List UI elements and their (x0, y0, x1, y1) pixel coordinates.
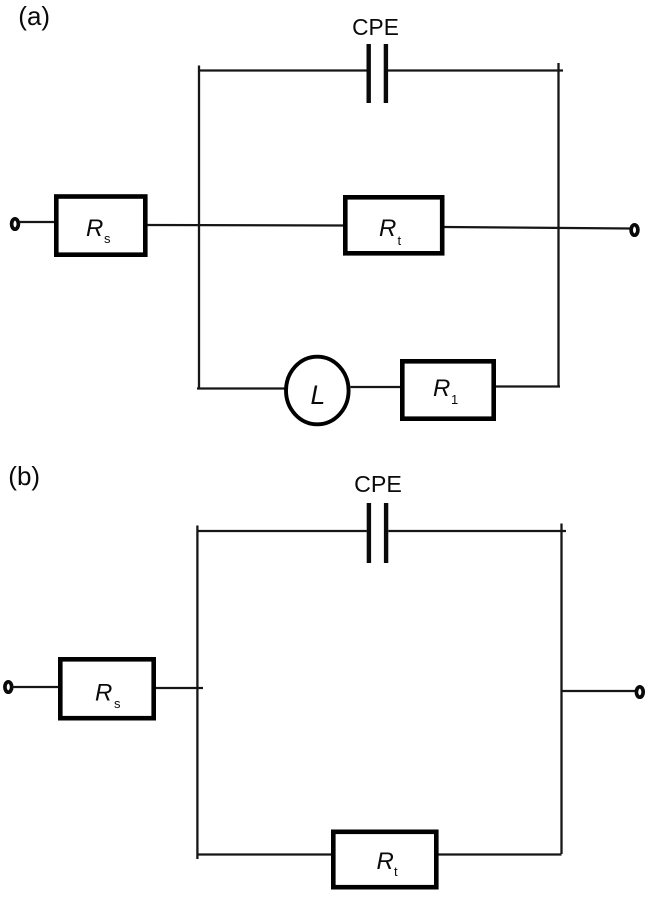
svg-text:s: s (104, 231, 111, 246)
svg-text:CPE: CPE (354, 471, 402, 497)
svg-text:R: R (379, 215, 396, 242)
svg-text:(b): (b) (8, 461, 40, 491)
svg-text:CPE: CPE (352, 14, 399, 40)
svg-text:s: s (114, 696, 121, 711)
svg-text:R: R (86, 215, 103, 242)
svg-text:R: R (433, 375, 450, 402)
svg-text:R: R (95, 680, 112, 707)
svg-text:t: t (398, 233, 402, 248)
svg-text:L: L (311, 380, 326, 410)
svg-text:t: t (394, 864, 398, 879)
svg-text:(a): (a) (18, 1, 50, 31)
svg-text:R: R (377, 848, 394, 875)
svg-text:1: 1 (451, 392, 458, 407)
